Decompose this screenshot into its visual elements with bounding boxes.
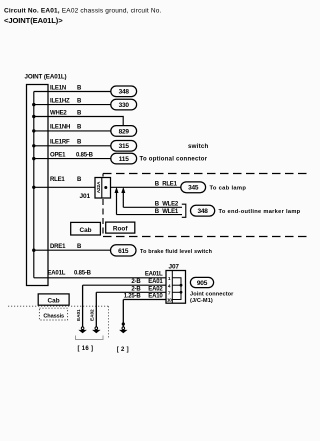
svg-text:B: B	[77, 85, 82, 91]
svg-text:348: 348	[119, 89, 130, 96]
page reference oval 615	[111, 245, 137, 256]
svg-text:B: B	[77, 177, 82, 183]
wire ILE1RF	[34, 145, 111, 147]
svg-text:1: 1	[168, 276, 171, 282]
svg-text:EA01: EA01	[148, 279, 163, 285]
svg-text:1.25-B: 1.25-B	[124, 294, 142, 300]
connector J01 box	[95, 178, 111, 199]
ground wire EA01 vertical	[82, 285, 84, 327]
wire B RLE1 to cab lamp	[111, 186, 181, 188]
joint connector box EA01L	[27, 85, 49, 286]
svg-text:RLE1: RLE1	[162, 181, 177, 187]
svg-text:J01: J01	[80, 193, 91, 200]
junction dot row RLE1	[32, 186, 35, 189]
svg-text:B: B	[77, 98, 82, 104]
wire WHE2 (bends down into oval 829)	[34, 117, 123, 126]
svg-text:615: 615	[118, 248, 129, 255]
bracket under grounds [16]	[76, 336, 104, 340]
wire OPE1	[34, 158, 111, 160]
page reference oval 348 (marker lamp)	[191, 205, 215, 216]
wire 2-B EA02	[96, 291, 166, 293]
svg-text:A22A: A22A	[96, 181, 102, 193]
svg-text:ILE1HZ: ILE1HZ	[50, 98, 70, 104]
chassis ground symbol EA02	[92, 327, 100, 333]
svg-text:[ 16 ]: [ 16 ]	[78, 346, 94, 352]
chassis boundary dotted horizontal	[8, 305, 109, 307]
wire ILE1HZ	[34, 104, 111, 106]
chassis ground symbol EA10	[119, 327, 127, 333]
wire RLE1	[34, 186, 95, 188]
svg-text:905: 905	[197, 280, 208, 287]
svg-text:To end-outline marker lamp: To end-outline marker lamp	[219, 209, 301, 215]
svg-text:Cab: Cab	[79, 227, 91, 234]
chassis ground symbol EA01	[78, 327, 86, 333]
svg-text:Circuit No. EA01, EA02 chassis: Circuit No. EA01, EA02 chassis ground, c…	[4, 8, 161, 15]
wire ILE1NH	[34, 130, 111, 132]
harness label box Roof	[106, 222, 135, 233]
svg-text:330: 330	[119, 102, 130, 109]
junction dot row OPE1	[32, 157, 35, 160]
svg-text:Chassis: Chassis	[43, 314, 64, 320]
page reference oval 345	[181, 182, 206, 193]
svg-text:JOINT (EA01L): JOINT (EA01L)	[25, 74, 67, 81]
svg-text:B: B	[77, 244, 82, 250]
svg-text:0.85-B: 0.85-B	[76, 152, 94, 158]
svg-text:Roof: Roof	[113, 225, 128, 232]
svg-text:Cab: Cab	[48, 298, 60, 305]
junction dot row WHE2	[32, 115, 35, 118]
svg-text:B: B	[77, 140, 82, 146]
svg-text:EA01L: EA01L	[48, 271, 66, 277]
page reference oval 315	[111, 141, 137, 152]
svg-text:WHE2: WHE2	[50, 110, 67, 116]
svg-text:0.85-B: 0.85-B	[74, 271, 92, 277]
junction dot row DRE1	[32, 249, 35, 252]
wire B WLE1	[117, 214, 183, 216]
svg-text:<JOINT(EA01L)>: <JOINT(EA01L)>	[4, 16, 63, 25]
chassis boundary dotted vertical	[108, 306, 110, 338]
roof harness boundary dashed left	[102, 174, 104, 237]
wire B WLE2	[123, 206, 182, 208]
svg-text:829: 829	[119, 128, 130, 135]
roof harness boundary dashed top	[103, 173, 310, 175]
wire EA01L to J07	[34, 277, 166, 279]
branch arrow WLE2 (taps RLE1 wire)	[121, 187, 125, 207]
svg-text:To cab lamp: To cab lamp	[210, 186, 247, 192]
wire 2-B EA01	[83, 284, 166, 286]
svg-text:115: 115	[119, 156, 129, 163]
ground wire EA10 vertical	[122, 300, 124, 327]
junction dot above ground EA10	[122, 322, 125, 325]
roof harness boundary dashed bottom	[103, 236, 310, 238]
svg-text:B: B	[155, 209, 160, 215]
svg-text:EA10: EA10	[148, 294, 163, 300]
svg-text:EA02: EA02	[90, 309, 96, 321]
svg-text:2-B: 2-B	[131, 279, 141, 285]
svg-text:315: 315	[119, 143, 130, 150]
page reference oval 348	[111, 86, 137, 97]
svg-text:WLE2: WLE2	[162, 202, 179, 208]
svg-text:345: 345	[188, 185, 199, 192]
svg-text:Joint connector: Joint connector	[190, 292, 234, 298]
harness label box Cab (roof boundary)	[71, 222, 101, 235]
bracket joining WLE2 and WLE1	[182, 204, 186, 217]
svg-text:OPE1: OPE1	[50, 152, 66, 158]
svg-text:To optional connector: To optional connector	[140, 156, 208, 162]
svg-text:EA02: EA02	[148, 286, 163, 292]
junction dot row ILE1NH	[32, 129, 35, 132]
svg-text:B: B	[77, 125, 82, 131]
svg-text:4: 4	[168, 283, 171, 289]
svg-text:switch: switch	[188, 143, 208, 150]
svg-text:B: B	[155, 181, 160, 187]
branch arrow WLE1 (taps RLE1 wire)	[115, 187, 119, 215]
page reference oval 330	[111, 99, 137, 110]
junction dot row ILE1RF	[32, 144, 35, 147]
svg-text:EA01: EA01	[76, 309, 82, 321]
page reference oval 115	[111, 153, 137, 164]
svg-text:B: B	[155, 202, 160, 208]
wire ILE1N	[34, 91, 111, 93]
harness label box Chassis (dotted)	[39, 308, 67, 320]
svg-text:RLE1: RLE1	[50, 177, 65, 183]
svg-text:EA01L: EA01L	[145, 272, 163, 278]
joint connector J07 box	[166, 271, 186, 304]
svg-text:DRE1: DRE1	[50, 244, 66, 250]
ground wire EA02 vertical	[95, 292, 97, 327]
svg-text:7: 7	[168, 290, 171, 296]
page reference oval 905	[190, 277, 213, 287]
svg-text:ILE1RF: ILE1RF	[50, 140, 70, 146]
svg-text:10: 10	[167, 298, 172, 304]
junction dot row ILE1HZ	[32, 103, 35, 106]
svg-text:2-B: 2-B	[131, 286, 141, 292]
svg-text:To brake fluid level switch: To brake fluid level switch	[140, 249, 212, 255]
svg-text:348: 348	[197, 208, 208, 215]
svg-text:(J/C-M1): (J/C-M1)	[190, 298, 213, 304]
ground bus wire inside joint box	[33, 92, 35, 278]
harness label box Cab (chassis boundary)	[38, 294, 69, 305]
svg-text:ILE1N: ILE1N	[50, 85, 66, 91]
internal bus of J07	[172, 278, 182, 300]
svg-text:J07: J07	[169, 263, 180, 270]
svg-text:[ 2 ]: [ 2 ]	[117, 347, 129, 353]
page reference oval 829	[111, 126, 137, 137]
svg-text:WLE1: WLE1	[162, 209, 179, 215]
svg-text:B: B	[77, 110, 82, 116]
wire DRE1	[34, 249, 111, 251]
svg-text:ILE1NH: ILE1NH	[50, 125, 70, 131]
wire 1.25-B EA10	[123, 299, 166, 301]
